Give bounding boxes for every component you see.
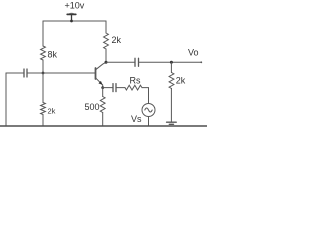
wire top 2k branch <box>105 21 107 33</box>
wire input to cap <box>6 72 24 74</box>
wire 2k to ground rail <box>42 115 44 127</box>
wire base <box>43 72 95 74</box>
ground <box>167 121 177 123</box>
transistor Q1 collector lead <box>96 62 107 70</box>
resistor RE 500 <box>100 97 105 113</box>
capacitor C1 input <box>23 69 25 77</box>
transistor Q1 emitter lead <box>96 78 103 88</box>
wire left branch upper <box>42 21 44 46</box>
wire cap to Rs <box>116 87 125 89</box>
terminal Vo end dot <box>200 61 202 63</box>
node top rail / supply junction <box>70 20 73 23</box>
wire output node to load <box>170 62 172 72</box>
node output junction <box>170 61 173 64</box>
wire emitter to cap <box>103 87 113 89</box>
svg-text:2k: 2k <box>176 76 186 86</box>
svg-text:8k: 8k <box>48 50 58 60</box>
wire output cap to Vo <box>139 61 202 63</box>
svg-text:Rs: Rs <box>130 75 141 85</box>
wire input left vertical <box>5 73 7 126</box>
wire load to ground symbol <box>170 89 172 123</box>
node collector junction <box>105 61 108 64</box>
svg-text:500: 500 <box>85 102 100 112</box>
svg-text:Vo: Vo <box>188 48 199 58</box>
wire cap to base node <box>27 72 43 74</box>
wire source to rail <box>148 117 150 127</box>
transistor Q1 base bar <box>95 68 97 79</box>
wire emitter branch down <box>102 88 104 97</box>
svg-text:2k: 2k <box>48 107 56 116</box>
svg-text:2k: 2k <box>112 35 122 45</box>
source Vs circle <box>142 104 155 117</box>
capacitor C2 output <box>134 58 136 66</box>
node base junction <box>42 72 45 75</box>
power terminal symbol <box>67 13 76 15</box>
svg-text:Vs: Vs <box>131 114 142 124</box>
capacitor C3 emitter <box>112 84 114 92</box>
transistor Q1 emitter arrow <box>98 81 102 85</box>
wire 2k to collector node <box>105 49 107 62</box>
power stem wire <box>71 15 73 21</box>
wire bottom rail <box>0 125 207 127</box>
svg-text:+10v: +10v <box>65 1 85 11</box>
wire Rs to source <box>142 88 149 104</box>
wire 8k to base node <box>42 60 44 73</box>
resistor R2 2k <box>41 103 46 115</box>
node emitter junction <box>101 86 104 89</box>
resistor Rs <box>125 85 142 90</box>
wire collector to output cap <box>106 61 135 63</box>
wire base node to lower 2k <box>42 73 44 103</box>
resistor R3 2k collector <box>104 33 109 49</box>
source Vs sine <box>145 108 152 112</box>
resistor R1 8k <box>41 46 46 60</box>
wire top rail <box>43 20 106 22</box>
resistor RL 2k load <box>169 73 174 89</box>
wire 500 to rail <box>102 113 104 127</box>
